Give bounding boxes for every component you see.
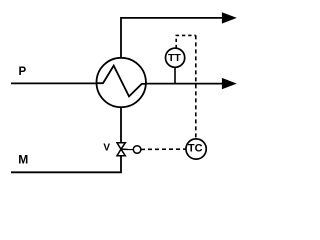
arrow top product [222, 12, 237, 23]
wire valve to M line [11, 155, 121, 172]
svg-text:P: P [19, 66, 27, 78]
wire TT stem [174, 67, 176, 84]
arrow P outlet [222, 78, 237, 89]
svg-text:TC: TC [188, 142, 203, 154]
svg-text:V: V [103, 143, 110, 154]
svg-text:TT: TT [168, 52, 181, 64]
wire dashed vertical to TC [195, 35, 197, 138]
instrument TT circle [166, 48, 185, 67]
wire P inlet line [11, 82, 97, 84]
valve actuator circle [133, 146, 141, 154]
wire dashed TC to actuator [141, 148, 186, 150]
heat exchanger circle [97, 58, 146, 107]
valve V body [117, 143, 125, 156]
wire top product line [121, 18, 223, 58]
wire valve stem to actuator [121, 148, 134, 150]
heat exchanger coil zigzag [97, 66, 146, 97]
wire dashed TT to TC [176, 35, 196, 48]
wire P outlet line [146, 83, 223, 85]
instrument TC circle [186, 139, 206, 159]
wire exchanger bottom to valve [120, 107, 122, 144]
svg-text:M: M [18, 152, 28, 166]
